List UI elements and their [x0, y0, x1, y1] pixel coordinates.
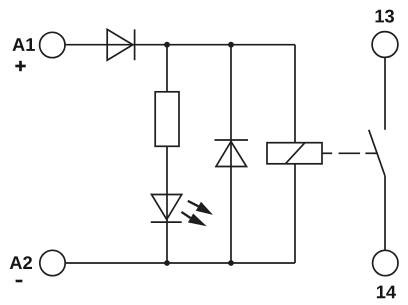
LED emission arrow upper: [188, 201, 213, 215]
wire bottom rail A2 to coil branch: [65, 262, 295, 264]
label - polarity: [16, 280, 23, 283]
LED indicator: [151, 195, 182, 223]
label A1: [13, 38, 35, 51]
LED emission arrow lower: [181, 212, 206, 226]
node junction top-middle: [228, 42, 234, 48]
label 13: [376, 10, 395, 23]
wire contact top (13 to blade): [384, 57, 386, 129]
label 14: [377, 286, 396, 299]
wire coil branch bottom: [294, 164, 296, 263]
label + polarity: [15, 61, 25, 71]
wire left branch vertical: [166, 45, 168, 263]
terminal 14: [373, 250, 398, 275]
terminal A1: [40, 32, 65, 57]
terminal A2: [40, 250, 65, 275]
wire coil branch top: [294, 45, 296, 143]
wire top rail A1 to coil branch: [65, 44, 295, 46]
label A2: [10, 256, 32, 269]
wire middle branch vertical: [230, 45, 232, 263]
relay contact blade: [369, 130, 385, 176]
relay coil K1: [267, 143, 322, 164]
node junction bottom-left: [164, 260, 170, 266]
resistor R1: [155, 92, 179, 147]
terminal 13: [372, 32, 398, 58]
wire contact bottom (blade to 14): [384, 176, 386, 250]
node junction bottom-middle: [228, 260, 234, 266]
node junction top-left: [164, 42, 170, 48]
mechanical link (dashed): [322, 152, 378, 154]
suppressor diode V1 (anti-parallel): [215, 140, 249, 167]
diode D1 (series, top rail): [107, 29, 134, 60]
